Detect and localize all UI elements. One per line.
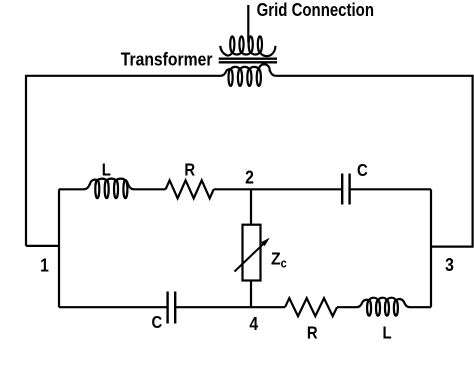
svg-text:C: C [152,313,163,332]
svg-text:1: 1 [40,254,49,276]
svg-text:Transformer: Transformer [121,48,213,70]
svg-text:R: R [184,161,195,180]
svg-text:Grid Connection: Grid Connection [257,0,374,20]
svg-text:C: C [357,161,368,180]
svg-text:3: 3 [445,254,454,276]
svg-text:L: L [382,323,391,342]
svg-text:R: R [307,323,318,342]
svg-text:4: 4 [249,313,258,335]
svg-text:2: 2 [245,166,254,188]
svg-text:L: L [102,160,111,179]
